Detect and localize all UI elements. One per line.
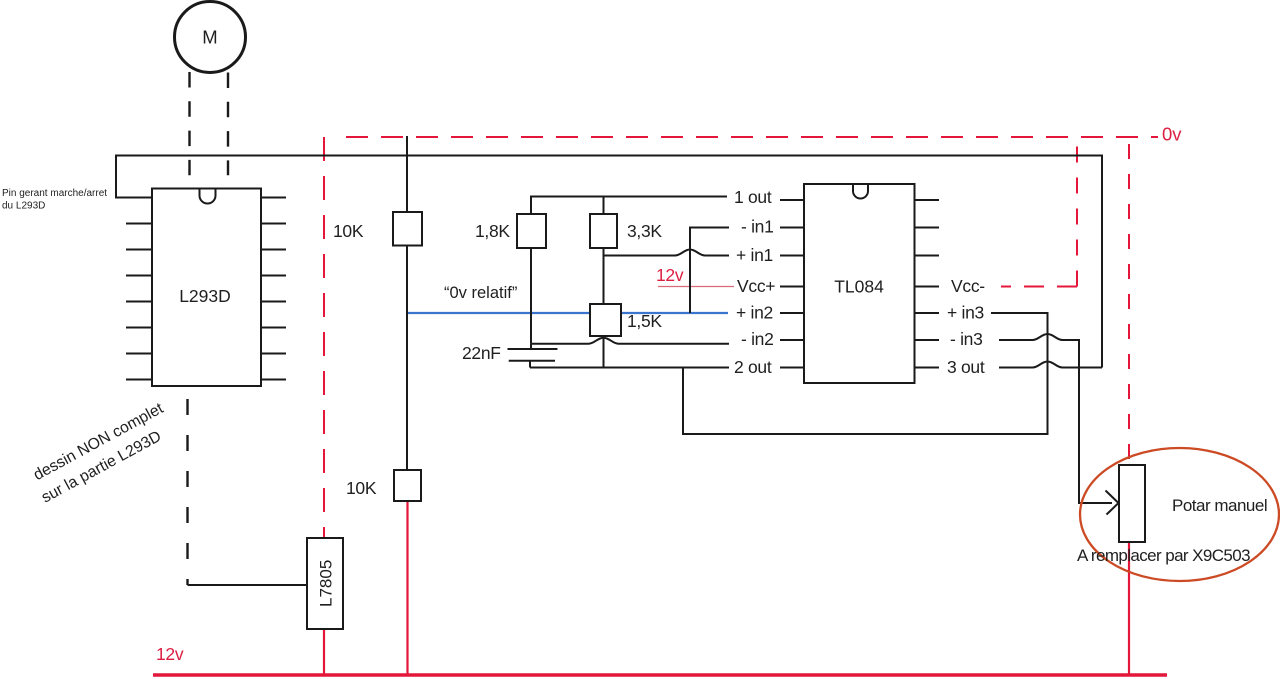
svg-text:Pin gerant marche/arret: Pin gerant marche/arret [2, 188, 107, 199]
svg-text:Potar manuel: Potar manuel [1172, 496, 1267, 515]
svg-text:L7805: L7805 [317, 560, 336, 607]
svg-text:12v: 12v [656, 265, 684, 285]
svg-text:Vcc+: Vcc+ [737, 276, 775, 296]
svg-text:Vcc-: Vcc- [951, 276, 985, 296]
svg-text:M: M [202, 27, 217, 48]
svg-text:- in1: - in1 [741, 217, 774, 237]
svg-text:L293D: L293D [179, 286, 231, 306]
svg-text:12v: 12v [156, 644, 184, 664]
svg-text:+ in3: + in3 [947, 303, 984, 323]
svg-text:3,3K: 3,3K [627, 221, 662, 241]
svg-text:2 out: 2 out [734, 357, 772, 377]
svg-text:0v: 0v [1162, 124, 1182, 145]
svg-text:- in3: - in3 [950, 329, 983, 349]
svg-text:10K: 10K [333, 221, 364, 241]
svg-text:+ in1: + in1 [736, 245, 773, 265]
svg-text:3 out: 3 out [947, 357, 985, 377]
svg-text:+ in2: + in2 [736, 303, 773, 323]
svg-text:1 out: 1 out [734, 187, 772, 207]
svg-text:TL084: TL084 [834, 277, 884, 297]
svg-text:- in2: - in2 [741, 329, 774, 349]
svg-text:du L293D: du L293D [2, 201, 45, 212]
svg-text:1,5K: 1,5K [627, 311, 662, 331]
svg-text:A remplacer par X9C503: A remplacer par X9C503 [1077, 546, 1250, 565]
svg-text:1,8K: 1,8K [475, 221, 510, 241]
svg-text:“0v relatif”: “0v relatif” [444, 284, 517, 302]
svg-text:22nF: 22nF [462, 343, 501, 363]
svg-text:10K: 10K [346, 478, 377, 498]
